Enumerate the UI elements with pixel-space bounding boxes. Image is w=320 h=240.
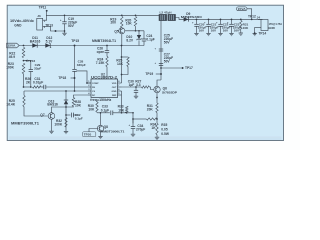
svg-text:CS: CS: [92, 91, 96, 93]
U2 pin 2 FB: [88, 86, 91, 88]
resistor R35: [156, 123, 158, 134]
resistor R23: [22, 63, 25, 74]
resistor R22: [22, 47, 25, 58]
transistor Q5: [119, 28, 125, 34]
svg-text:GND: GND: [268, 26, 276, 30]
svg-text:33pF: 33pF: [34, 66, 41, 70]
Q6 source column: [156, 93, 158, 103]
ground below C30: [134, 95, 138, 97]
ground below C34: [131, 133, 135, 135]
svg-text:0.1µF: 0.1µF: [75, 117, 83, 121]
svg-text:+: +: [192, 21, 194, 25]
wire J3 pin1 to VIN rail: [43, 15, 47, 20]
svg-text:Si7852DP: Si7852DP: [162, 90, 177, 94]
svg-text:20K: 20K: [147, 108, 154, 112]
resistor R25 16.4K: [23, 91, 25, 95]
resistor R19: [121, 16, 124, 28]
diode D9: [184, 17, 189, 21]
svg-text:330pF: 330pF: [77, 63, 86, 67]
svg-text:0.1µF: 0.1µF: [101, 108, 109, 112]
capacitor C32: [66, 114, 70, 116]
capacitor C28: [74, 46, 76, 70]
U2 pin 5 REF: [118, 94, 122, 96]
capacitor C24: [143, 31, 145, 39]
capacitor C25: [159, 48, 163, 50]
diode D11: [32, 43, 37, 47]
U2 pin 1 COMP: [88, 82, 91, 84]
svg-text:0.01µF: 0.01µF: [33, 80, 43, 84]
svg-text:REF: REF: [112, 95, 117, 97]
svg-text:MBRS360: MBRS360: [181, 15, 202, 19]
test point TP19: [160, 73, 162, 75]
zener D10: [138, 31, 140, 35]
svg-text:J4: J4: [257, 16, 261, 20]
svg-text:TP13: TP13: [45, 24, 53, 28]
resistor R27: [142, 86, 150, 88]
net label 15VA oval: [236, 7, 247, 11]
capacitor C27: [159, 62, 163, 64]
svg-text:3.3: 3.3: [136, 83, 141, 87]
output capacitor C22: [220, 19, 222, 21]
resistor R25 14K: [122, 56, 129, 58]
svg-text:UCC3807D-2: UCC3807D-2: [91, 76, 117, 80]
J4 ground return: [255, 27, 261, 33]
VIN top rail: [46, 14, 159, 16]
svg-text:R35: R35: [161, 123, 167, 127]
switch node column: [160, 21, 162, 80]
svg-text:L2 47µH: L2 47µH: [160, 11, 172, 15]
U2 pin 3 CS: [88, 90, 91, 92]
wire U2 GND to bottom bus: [121, 91, 123, 113]
output rail after inductor: [176, 18, 263, 20]
svg-text:14K: 14K: [117, 62, 124, 66]
svg-text:+: +: [216, 21, 218, 25]
capacitor C26 open: [106, 46, 108, 51]
svg-text:+: +: [204, 21, 206, 25]
bias rail with D11 D12: [19, 45, 144, 47]
svg-text:Q8: Q8: [104, 125, 109, 129]
svg-text:TP17: TP17: [185, 66, 193, 70]
transistor Q7: [48, 113, 55, 120]
svg-text:10K: 10K: [118, 108, 125, 112]
svg-text:TP18: TP18: [58, 76, 66, 80]
svg-text:8.2V: 8.2V: [126, 38, 134, 42]
svg-text:BAS16: BAS16: [30, 40, 41, 44]
svg-text:MMBT3906LT1: MMBT3906LT1: [11, 121, 39, 125]
ground below C19: [64, 30, 66, 32]
test point TP16: [25, 60, 28, 62]
ground below Q8: [98, 135, 102, 137]
svg-text:J3: J3: [37, 14, 41, 18]
svg-text:+: +: [60, 18, 62, 22]
resistor R32: [65, 118, 67, 128]
bottom timing bus: [97, 112, 110, 114]
svg-text:open: open: [97, 50, 105, 54]
MOSFET Q6: [154, 86, 160, 92]
svg-text:Q7: Q7: [40, 113, 45, 117]
svg-text:16V: 16V: [211, 29, 216, 33]
svg-text:16.4K: 16.4K: [6, 103, 15, 107]
svg-text:16V: 16V: [199, 29, 204, 33]
svg-text:COMP: COMP: [92, 83, 99, 85]
controller U2 UCC3807D-2: [91, 79, 118, 98]
resistor R34: [146, 118, 157, 120]
svg-text:OUT: OUT: [112, 87, 117, 89]
ground below R32: [64, 130, 68, 132]
svg-text:10K: 10K: [126, 21, 133, 25]
svg-text:MMBT3906LT1: MMBT3906LT1: [100, 129, 124, 133]
capacitor C30: [135, 87, 137, 90]
ground below J4: [253, 32, 257, 34]
svg-text:200: 200: [111, 20, 117, 24]
ground below R21: [239, 32, 243, 34]
svg-text:10K: 10K: [75, 104, 82, 108]
svg-text:MMBT3904LT1: MMBT3904LT1: [92, 39, 116, 43]
resistor R30: [96, 101, 98, 102]
resistor R31: [156, 103, 158, 113]
svg-text:Q5: Q5: [114, 29, 119, 33]
ground below Q7: [49, 130, 53, 132]
svg-text:+: +: [227, 21, 229, 25]
svg-text:freq=150kHz: freq=150kHz: [90, 98, 111, 102]
svg-text:BAS16: BAS16: [47, 103, 58, 107]
svg-text:50V: 50V: [164, 41, 171, 45]
test point TP17: [160, 67, 162, 69]
resistor R21: [240, 19, 242, 21]
svg-text:RC: RC: [92, 95, 96, 97]
resistor R24: [106, 56, 108, 66]
capacitor C19: [64, 15, 66, 21]
U2 pin 8 VDD: [118, 82, 122, 84]
U2 pin 6 GND: [118, 90, 122, 92]
svg-text:VDD: VDD: [112, 83, 117, 85]
wire Q5 base row: [125, 30, 144, 32]
svg-text:1µF: 1µF: [129, 83, 135, 87]
svg-text:GND: GND: [14, 24, 22, 28]
resistor R20: [134, 17, 137, 27]
compensation bus to U2 pin1: [24, 86, 32, 88]
svg-text:50V: 50V: [68, 24, 75, 28]
svg-text:1K: 1K: [151, 126, 156, 130]
capacitor C29: [24, 60, 31, 62]
svg-text:0.05: 0.05: [161, 127, 168, 131]
test point TP20: [89, 129, 98, 132]
svg-text:TP14: TP14: [258, 32, 266, 36]
svg-text:TP12: TP12: [248, 15, 256, 19]
resistor R26: [33, 86, 42, 88]
transistor Q8: [97, 125, 103, 131]
svg-text:10Vdc-40Vdc: 10Vdc-40Vdc: [10, 19, 34, 23]
diode D13: [65, 91, 67, 100]
net label 15VA left: [7, 43, 20, 48]
output capacitor C20: [196, 19, 198, 21]
svg-text:2K: 2K: [26, 80, 31, 84]
ground below R35: [155, 136, 159, 138]
svg-text:0.1µF: 0.1µF: [146, 38, 154, 42]
svg-text:15VA: 15VA: [238, 8, 246, 11]
svg-text:100K: 100K: [6, 65, 14, 69]
svg-text:5.1V: 5.1V: [46, 40, 54, 44]
CS bus to U2 pin3: [24, 90, 88, 92]
svg-text:15VA: 15VA: [7, 45, 15, 48]
connector J3: [37, 18, 43, 30]
svg-text:FB: FB: [92, 87, 95, 89]
svg-text:10K: 10K: [88, 108, 95, 112]
U2 pin 7 OUT: [118, 86, 122, 88]
connector J4: [261, 20, 268, 31]
svg-text:+: +: [128, 123, 130, 127]
svg-text:7.15K: 7.15K: [96, 61, 105, 65]
resistor R28: [74, 95, 88, 98]
U2 OUT wire to gate: [122, 86, 142, 88]
svg-text:50V: 50V: [164, 59, 171, 63]
svg-text:TP20: TP20: [84, 133, 92, 137]
svg-text:TP15: TP15: [71, 39, 79, 43]
output capacitor C21: [208, 19, 210, 21]
capacitor C33: [110, 111, 112, 116]
resistor R33: [126, 106, 129, 113]
zener D12: [45, 43, 50, 47]
svg-text:49.9: 49.9: [9, 55, 16, 59]
U2 pin 4 RC: [88, 94, 91, 96]
svg-text:16V: 16V: [234, 29, 239, 33]
svg-text:270µF: 270µF: [136, 128, 145, 132]
wire J3 pin2 to ground run: [43, 26, 65, 31]
svg-text:100K: 100K: [54, 122, 62, 126]
svg-text:0.5W: 0.5W: [161, 132, 170, 136]
wire bias to U2 VDD: [121, 34, 123, 46]
svg-text:GND: GND: [112, 91, 117, 93]
svg-text:TP11: TP11: [39, 5, 47, 9]
schematic sheet background: [0, 0, 300, 150]
capacitor C34: [132, 113, 134, 123]
svg-text:10K: 10K: [243, 26, 249, 30]
svg-text:16V: 16V: [223, 29, 228, 33]
capacitor C31: [41, 86, 44, 88]
output capacitor C23: [231, 19, 233, 21]
svg-text:TP19: TP19: [145, 72, 153, 76]
